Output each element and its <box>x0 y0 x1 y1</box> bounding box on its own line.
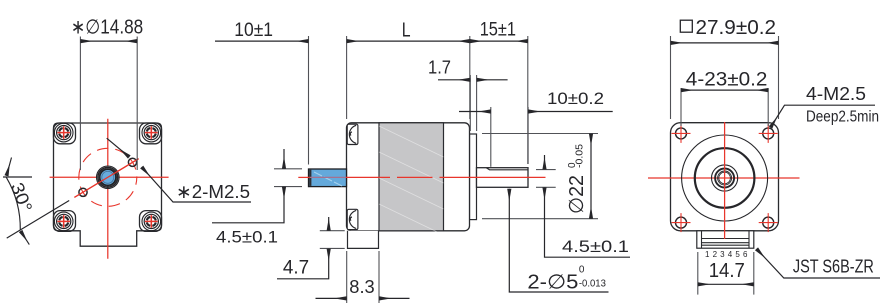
svg-text:-0.013: -0.013 <box>579 278 606 289</box>
svg-text:0: 0 <box>579 265 585 276</box>
svg-text:4-23±0.2: 4-23±0.2 <box>686 69 768 91</box>
svg-text:2: 2 <box>713 250 718 259</box>
svg-text:2-∅5: 2-∅5 <box>527 271 578 293</box>
svg-text:∅22: ∅22 <box>566 175 588 214</box>
svg-text:4.5±0.1: 4.5±0.1 <box>562 238 629 256</box>
svg-text:10±1: 10±1 <box>234 19 273 41</box>
svg-text:-0.05: -0.05 <box>575 144 586 168</box>
svg-text:1.7: 1.7 <box>428 58 451 78</box>
svg-text:15±1: 15±1 <box>480 18 516 40</box>
svg-text:10±0.2: 10±0.2 <box>547 89 604 108</box>
svg-text:6: 6 <box>743 250 748 259</box>
svg-text:4: 4 <box>728 250 733 259</box>
svg-text:8.3: 8.3 <box>349 276 374 297</box>
svg-text:14.7: 14.7 <box>709 259 745 282</box>
svg-text:∗∅14.88: ∗∅14.88 <box>71 17 143 39</box>
svg-text:4.5±0.1: 4.5±0.1 <box>216 228 278 246</box>
svg-text:4.7: 4.7 <box>283 258 309 279</box>
svg-text:JST S6B-ZR: JST S6B-ZR <box>793 257 874 277</box>
svg-text:L: L <box>402 19 411 41</box>
svg-text:∗2-M2.5: ∗2-M2.5 <box>176 181 250 202</box>
svg-text:4-M2.5: 4-M2.5 <box>806 83 866 104</box>
svg-text:Deep2.5min: Deep2.5min <box>806 109 879 126</box>
svg-text:27.9±0.2: 27.9±0.2 <box>696 17 777 39</box>
svg-text:1: 1 <box>705 250 710 259</box>
svg-text:5: 5 <box>735 250 740 259</box>
svg-text:3: 3 <box>720 250 725 259</box>
